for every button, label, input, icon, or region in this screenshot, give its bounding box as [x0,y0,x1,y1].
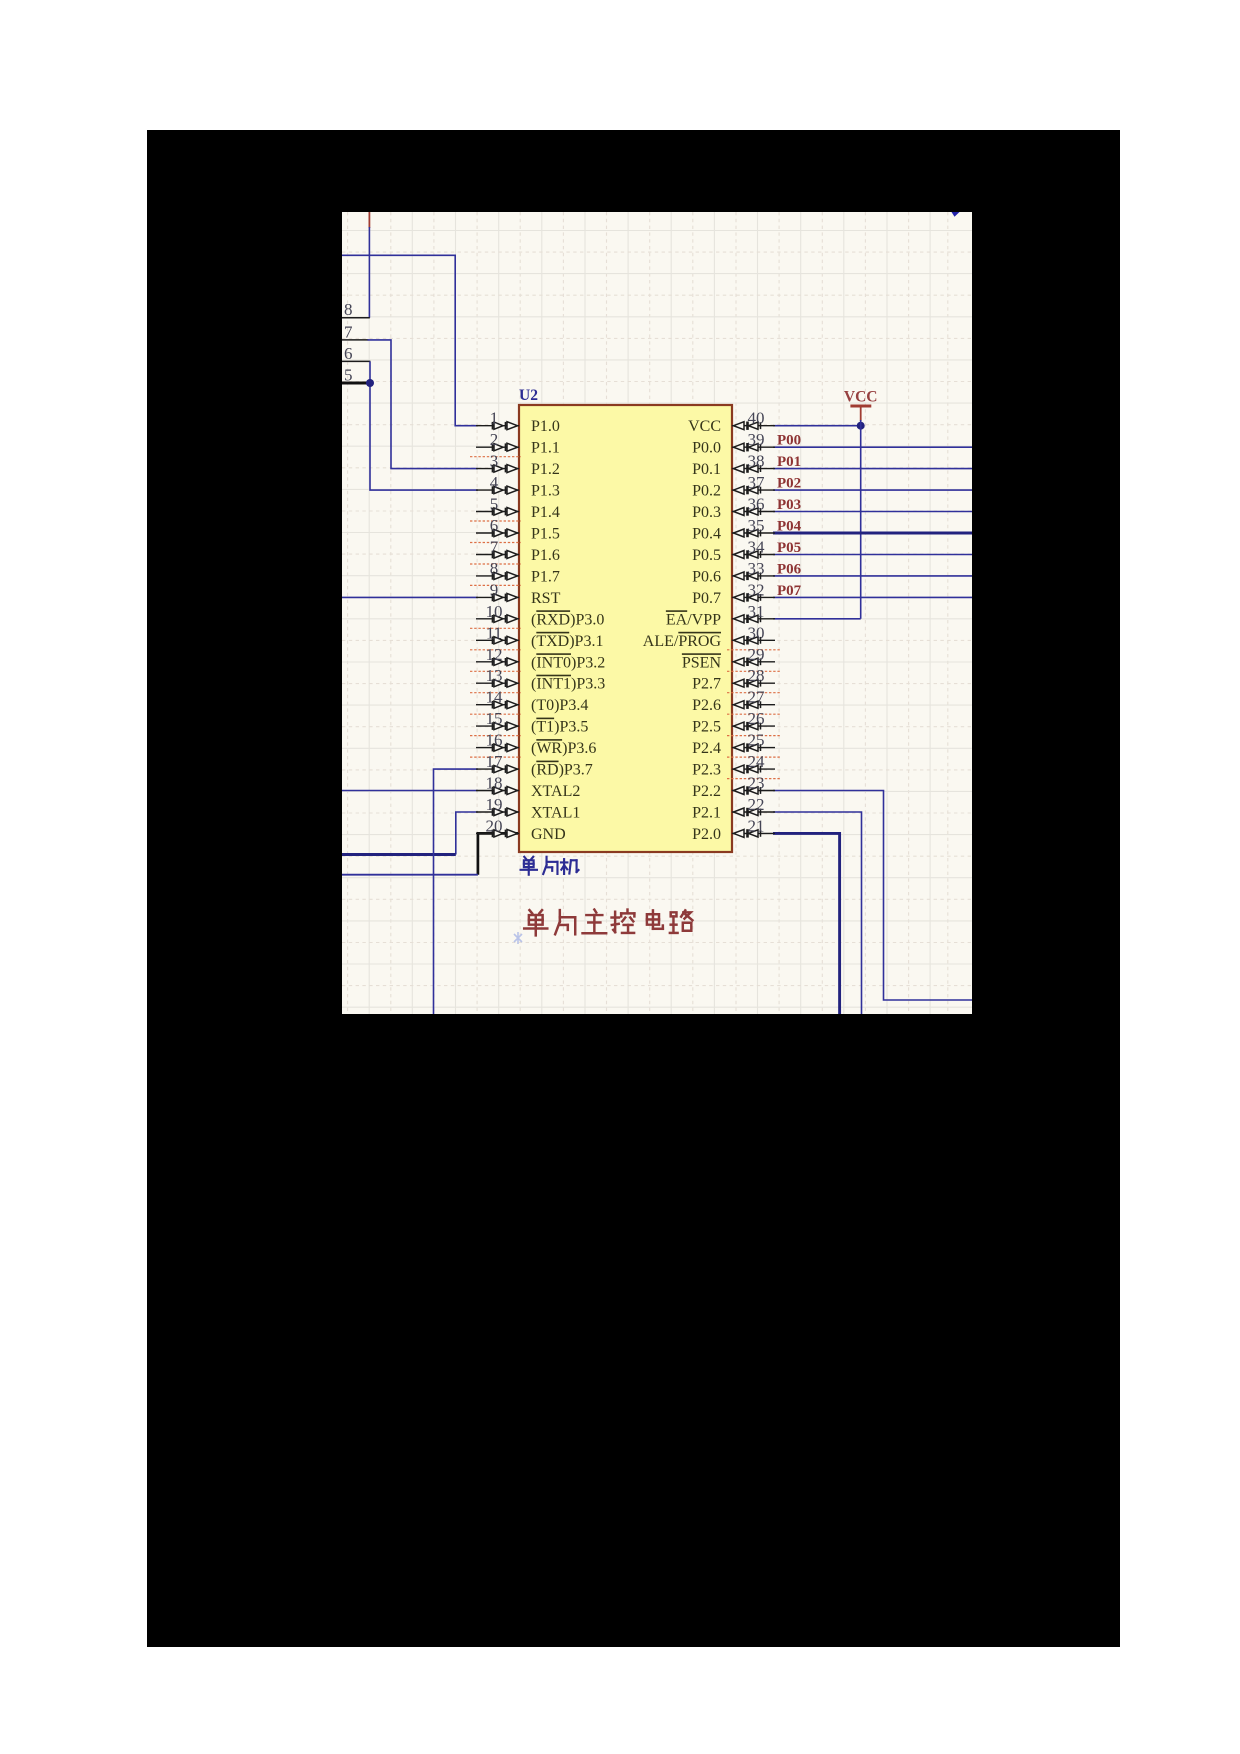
svg-text:22: 22 [748,795,765,814]
svg-text:(T1)P3.5: (T1)P3.5 [531,719,588,736]
svg-text:P0.2: P0.2 [692,483,721,500]
svg-text:11: 11 [486,623,502,642]
svg-text:P0.6: P0.6 [692,568,721,585]
svg-text:(WR)P3.6: (WR)P3.6 [531,740,596,757]
svg-text:17: 17 [486,752,504,771]
svg-text:(RD)P3.7: (RD)P3.7 [531,762,593,779]
svg-text:26: 26 [748,709,765,728]
svg-text:P0.3: P0.3 [692,504,721,521]
svg-text:7: 7 [490,538,499,557]
svg-text:5: 5 [344,365,353,384]
svg-text:4: 4 [490,473,499,492]
svg-text:40: 40 [748,409,765,428]
svg-text:P00: P00 [777,433,801,449]
svg-text:P1.7: P1.7 [531,568,560,585]
svg-text:35: 35 [748,516,765,535]
svg-text:P0.4: P0.4 [692,526,721,543]
svg-text:9: 9 [490,580,499,599]
svg-text:P01: P01 [777,454,801,470]
svg-text:24: 24 [748,752,766,771]
svg-text:37: 37 [748,473,766,492]
svg-text:6: 6 [344,344,353,363]
svg-text:P2.7: P2.7 [692,676,721,693]
svg-text:P03: P03 [777,497,801,513]
svg-text:25: 25 [748,731,765,750]
svg-text:10: 10 [486,602,503,621]
svg-text:7: 7 [344,322,353,341]
svg-text:P1.3: P1.3 [531,483,560,500]
svg-text:U2: U2 [519,387,538,404]
svg-text:15: 15 [486,709,503,728]
svg-text:VCC: VCC [844,389,878,406]
svg-text:21: 21 [748,816,765,835]
svg-text:P2.5: P2.5 [692,719,721,736]
svg-text:(RXD)P3.0: (RXD)P3.0 [531,611,604,628]
svg-text:20: 20 [486,816,503,835]
svg-text:30: 30 [748,623,765,642]
svg-text:14: 14 [486,688,504,707]
svg-text:19: 19 [486,795,503,814]
svg-text:5: 5 [490,495,499,514]
svg-text:P05: P05 [777,540,801,556]
svg-text:P1.5: P1.5 [531,526,560,543]
svg-text:(INT1)P3.3: (INT1)P3.3 [531,676,605,693]
svg-text:XTAL1: XTAL1 [531,805,580,822]
svg-text:P0.5: P0.5 [692,547,721,564]
svg-text:16: 16 [486,731,503,750]
svg-text:1: 1 [490,409,499,428]
svg-text:39: 39 [748,430,765,449]
svg-text:23: 23 [748,774,765,793]
svg-text:2: 2 [490,430,499,449]
svg-text:28: 28 [748,666,765,685]
svg-text:31: 31 [748,602,765,621]
svg-text:13: 13 [486,666,503,685]
svg-text:P2.6: P2.6 [692,697,721,714]
svg-text:3: 3 [490,452,499,471]
svg-text:GND: GND [531,826,566,843]
svg-text:29: 29 [748,645,765,664]
svg-text:VCC: VCC [688,418,721,435]
svg-text:P07: P07 [777,583,802,599]
svg-text:EA/VPP: EA/VPP [666,611,721,628]
svg-text:P2.0: P2.0 [692,826,721,843]
svg-text:P1.2: P1.2 [531,461,560,478]
svg-text:P2.1: P2.1 [692,805,721,822]
svg-text:P06: P06 [777,561,802,577]
svg-text:P04: P04 [777,519,802,535]
svg-text:P2.4: P2.4 [692,740,721,757]
svg-text:12: 12 [486,645,503,664]
svg-text:(TXD)P3.1: (TXD)P3.1 [531,633,603,650]
svg-text:27: 27 [748,688,766,707]
svg-text:(INT0)P3.2: (INT0)P3.2 [531,654,605,671]
svg-text:P0.7: P0.7 [692,590,721,607]
svg-text:P0.1: P0.1 [692,461,721,478]
svg-text:P02: P02 [777,476,801,492]
svg-text:8: 8 [344,300,353,319]
svg-text:XTAL2: XTAL2 [531,783,580,800]
svg-text:8: 8 [490,559,499,578]
svg-text:P1.0: P1.0 [531,418,560,435]
svg-text:PSEN: PSEN [682,654,722,671]
svg-text:ALE/PROG: ALE/PROG [643,633,722,650]
svg-text:32: 32 [748,580,765,599]
svg-text:P1.1: P1.1 [531,440,560,457]
svg-text:34: 34 [748,538,766,557]
svg-text:P2.2: P2.2 [692,783,721,800]
svg-text:P1.6: P1.6 [531,547,560,564]
svg-text:P2.3: P2.3 [692,762,721,779]
svg-text:18: 18 [486,774,503,793]
svg-text:36: 36 [748,495,765,514]
svg-text:P1.4: P1.4 [531,504,560,521]
svg-text:(T0)P3.4: (T0)P3.4 [531,697,588,714]
svg-text:6: 6 [490,516,499,535]
svg-text:33: 33 [748,559,765,578]
svg-text:38: 38 [748,452,765,471]
svg-text:P0.0: P0.0 [692,440,721,457]
svg-text:RST: RST [531,590,561,607]
